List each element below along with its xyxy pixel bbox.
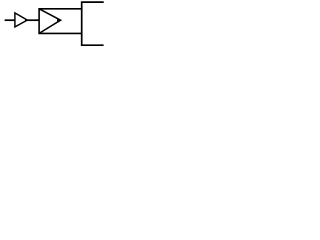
transducer bracket — [82, 2, 104, 45]
wire input lead — [5, 19, 16, 21]
amplifier triangle — [39, 9, 61, 34]
amplifier triangle apex nib — [57, 19, 61, 23]
amplifier box outline — [39, 9, 82, 34]
wire buffer-to-amplifier — [27, 19, 39, 21]
buffer small triangle — [15, 13, 27, 27]
buffer triangle apex nib — [25, 19, 28, 22]
